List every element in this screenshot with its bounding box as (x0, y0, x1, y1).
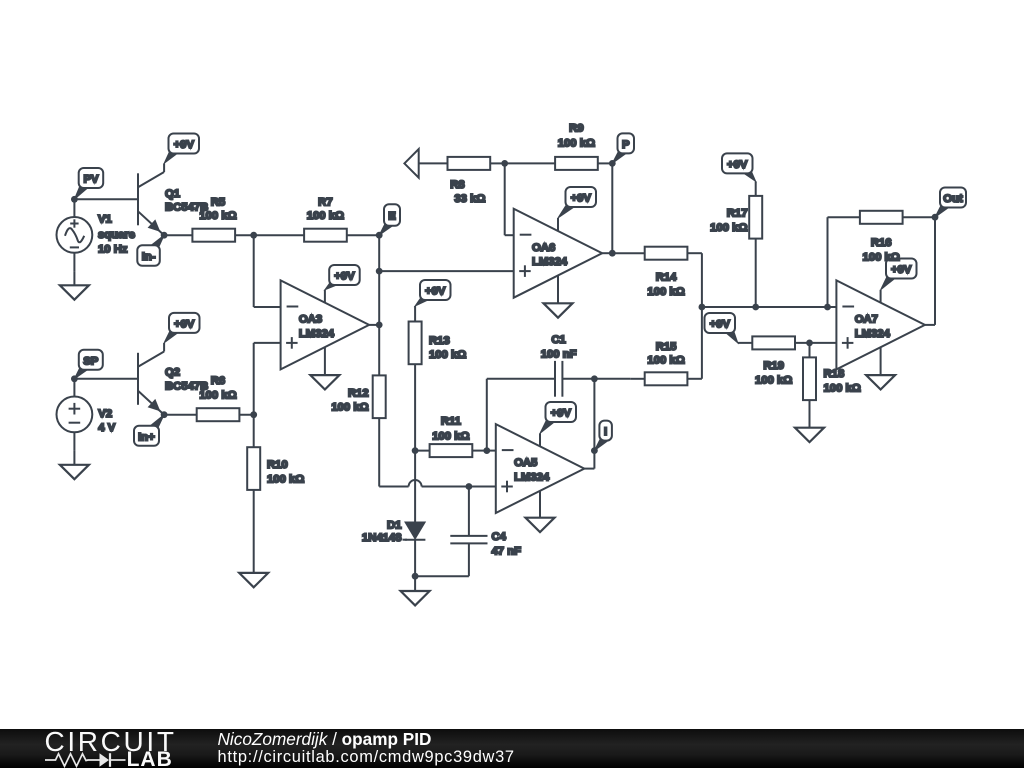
svg-text:100 kΩ: 100 kΩ (863, 252, 900, 264)
svg-text:In+: In+ (138, 431, 155, 443)
svg-text:100 kΩ: 100 kΩ (199, 210, 236, 222)
svg-text:R7: R7 (318, 197, 332, 209)
svg-text:100 kΩ: 100 kΩ (267, 474, 304, 486)
svg-text:+9V: +9V (727, 159, 748, 171)
svg-text:SP: SP (83, 355, 99, 367)
svg-text:R9: R9 (569, 123, 583, 135)
svg-text:OA7: OA7 (855, 314, 878, 326)
svg-text:100 kΩ: 100 kΩ (429, 349, 466, 361)
svg-text:R6: R6 (211, 375, 225, 387)
svg-text:R12: R12 (348, 388, 369, 400)
svg-text:In-: In- (142, 251, 156, 263)
svg-text:Q2: Q2 (165, 367, 180, 379)
svg-text:100 kΩ: 100 kΩ (331, 402, 368, 414)
svg-text:33 kΩ: 33 kΩ (454, 193, 485, 205)
svg-text:100 kΩ: 100 kΩ (647, 355, 684, 367)
svg-text:R8: R8 (450, 179, 464, 191)
svg-text:R5: R5 (211, 197, 225, 209)
svg-text:+9V: +9V (551, 408, 572, 420)
svg-text:OA3: OA3 (299, 314, 322, 326)
svg-text:100 kΩ: 100 kΩ (558, 138, 595, 150)
svg-text:OA6: OA6 (532, 242, 555, 254)
svg-text:100 kΩ: 100 kΩ (647, 286, 684, 298)
svg-text:LM324: LM324 (514, 472, 550, 484)
svg-text:R16: R16 (871, 237, 892, 249)
svg-text:R18: R18 (824, 368, 845, 380)
svg-text:PV: PV (83, 174, 99, 186)
svg-text:Q1: Q1 (165, 188, 180, 200)
svg-text:I: I (604, 426, 607, 438)
svg-text:+9V: +9V (425, 286, 446, 298)
svg-text:OA5: OA5 (514, 457, 537, 469)
svg-text:R14: R14 (656, 272, 677, 284)
svg-text:4 V: 4 V (98, 422, 115, 434)
svg-text:10 Hz: 10 Hz (98, 244, 128, 256)
svg-text:+9V: +9V (571, 193, 592, 205)
svg-text:LM324: LM324 (532, 256, 568, 268)
svg-text:+9V: +9V (174, 139, 195, 151)
svg-text:100 kΩ: 100 kΩ (432, 431, 469, 443)
svg-text:+9V: +9V (710, 319, 731, 331)
svg-text:+9V: +9V (334, 271, 355, 283)
svg-text:R17: R17 (727, 208, 748, 220)
svg-text:Out: Out (943, 193, 963, 205)
svg-text:47 nF: 47 nF (492, 546, 522, 558)
svg-text:D1: D1 (387, 520, 401, 532)
svg-text:LM324: LM324 (855, 328, 891, 340)
svg-text:square: square (98, 229, 135, 241)
svg-text:V1: V1 (98, 214, 112, 226)
svg-text:R11: R11 (441, 416, 461, 428)
svg-text:R15: R15 (656, 341, 677, 353)
svg-text:R13: R13 (429, 335, 450, 347)
svg-text:+9V: +9V (174, 318, 195, 330)
svg-text:R19: R19 (763, 360, 784, 372)
svg-text:C1: C1 (551, 334, 565, 346)
svg-text:C4: C4 (492, 531, 507, 543)
svg-text:100 kΩ: 100 kΩ (710, 222, 747, 234)
svg-text:100 kΩ: 100 kΩ (755, 375, 792, 387)
svg-text:+9V: +9V (891, 264, 912, 276)
svg-text:100 nF: 100 nF (541, 349, 577, 361)
svg-text:V2: V2 (98, 408, 112, 420)
svg-text:100 kΩ: 100 kΩ (824, 383, 861, 395)
svg-text:P: P (622, 139, 630, 151)
svg-text:R10: R10 (267, 459, 288, 471)
svg-text:1N4148: 1N4148 (362, 532, 402, 544)
svg-text:LM324: LM324 (299, 328, 335, 340)
svg-text:100 kΩ: 100 kΩ (199, 390, 236, 402)
svg-text:E: E (388, 211, 396, 223)
svg-text:100 kΩ: 100 kΩ (307, 210, 344, 222)
